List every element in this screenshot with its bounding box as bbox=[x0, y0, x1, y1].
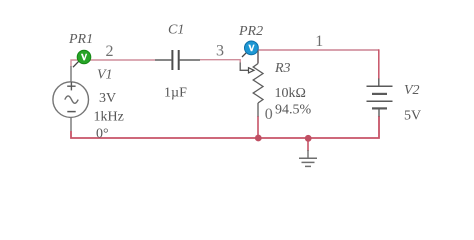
wire node1: R3 top to V2 corner bbox=[258, 50, 379, 63]
probe PR1 bbox=[73, 50, 91, 67]
svg-text:94.5%: 94.5% bbox=[275, 103, 312, 118]
battery V2 bbox=[367, 79, 393, 117]
svg-text:3: 3 bbox=[216, 43, 224, 60]
svg-text:0°: 0° bbox=[96, 127, 109, 142]
svg-text:1: 1 bbox=[315, 33, 323, 50]
junction dot node0 at ground bbox=[305, 135, 312, 142]
svg-text:PR1: PR1 bbox=[68, 32, 93, 47]
svg-text:PR2: PR2 bbox=[238, 24, 263, 39]
svg-text:V2: V2 bbox=[404, 83, 420, 98]
svg-text:2: 2 bbox=[106, 43, 114, 60]
ground bbox=[299, 150, 317, 166]
capacitor C1 bbox=[155, 50, 200, 70]
junction dot node0 at R3 bbox=[255, 135, 262, 142]
svg-text:3V: 3V bbox=[99, 91, 116, 106]
probe PR2 bbox=[242, 41, 258, 57]
wire node2: V1 top to C1 left bbox=[71, 60, 155, 67]
wire R3 bottom to rail bbox=[257, 116, 259, 138]
svg-text:10kΩ: 10kΩ bbox=[275, 86, 306, 101]
potentiometer R3 bbox=[240, 51, 263, 117]
svg-text:0: 0 bbox=[265, 106, 273, 123]
svg-text:1kHz: 1kHz bbox=[94, 110, 124, 125]
svg-text:5V: 5V bbox=[404, 109, 421, 124]
wire ground rail bbox=[71, 116, 379, 138]
wire ground stem bbox=[307, 138, 309, 151]
wire node1 drop to V2 bbox=[378, 49, 380, 79]
svg-text:C1: C1 bbox=[168, 23, 184, 38]
svg-text:R3: R3 bbox=[274, 61, 291, 76]
wire node3: C1 right to R3 wiper bbox=[200, 60, 240, 63]
svg-text:1µF: 1µF bbox=[164, 86, 187, 101]
source V1 bbox=[53, 66, 89, 131]
svg-text:V1: V1 bbox=[97, 68, 113, 83]
